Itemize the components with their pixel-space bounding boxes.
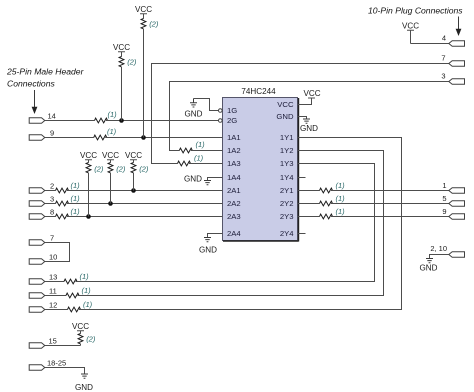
wire pin 9 to resistor (45, 137, 94, 139)
connector plug pin 9 (442, 207, 464, 219)
wire IC GND pin to ground (298, 117, 307, 120)
wire resistor to pin 1A2 (191, 150, 223, 152)
VCC symbol for pull-up on wire 15 (72, 322, 89, 334)
svg-text:VCC: VCC (402, 22, 419, 31)
resistor (1) in series with pin 2 (56, 181, 81, 193)
wire pull-up to wire 9 (143, 29, 145, 138)
resistor (2) pull-up on wire 9 (141, 19, 159, 29)
pin GND label (276, 112, 294, 121)
wire resistor to IC pin (row 3) (67, 203, 223, 205)
svg-text:74HC244: 74HC244 (241, 87, 276, 96)
junction of pull-up and wire 9 (141, 135, 146, 140)
pin 2A4 label (227, 229, 241, 238)
connector header pin 2 (29, 182, 54, 194)
svg-text:3: 3 (50, 195, 54, 204)
pin 2Y4 label (280, 229, 294, 238)
wire resistor to pin 1A1 (105, 137, 222, 139)
resistor (2) pull-up on wire 8 (86, 163, 104, 174)
wire pin 1A4 to ground (208, 178, 223, 181)
svg-text:8: 8 (50, 208, 54, 217)
pin 2Y2 label (280, 199, 294, 208)
VCC symbol for pull-up on wire 14 (113, 43, 130, 57)
svg-text:1Y2: 1Y2 (280, 146, 294, 155)
svg-text:GND: GND (276, 112, 294, 121)
resistor (1) in series with 2Y2 (320, 194, 346, 206)
ground bracket wire to pin 1G (194, 99, 219, 111)
connector plug pin 7 (441, 54, 464, 67)
connector header pin 3 (29, 195, 54, 207)
VCC symbol for pull-up on wire 2 (125, 151, 142, 163)
pin 1Y4 stub wire (298, 177, 306, 179)
connector header pin 10 (29, 253, 57, 265)
wire resistor to pin 2G (106, 120, 218, 122)
wire resistor to IC pin (row 2) (67, 190, 223, 192)
svg-text:VCC: VCC (102, 151, 119, 160)
svg-text:2A2: 2A2 (227, 199, 241, 208)
svg-text:(1): (1) (107, 127, 117, 136)
svg-text:4: 4 (442, 34, 446, 43)
svg-text:7: 7 (50, 234, 54, 243)
svg-text:2Y1: 2Y1 (280, 186, 294, 195)
pin 2Y1 label (280, 186, 294, 195)
svg-text:VCC: VCC (72, 322, 89, 331)
svg-text:1A2: 1A2 (227, 146, 241, 155)
resistor (1) in series with pin 1A3 (178, 154, 204, 166)
resistor (1) in series with pin 9 (94, 127, 117, 140)
svg-text:GND: GND (420, 264, 438, 273)
wire resistor 2Y2 to plug (331, 203, 449, 205)
wire pin 12 to IC output (79, 138, 402, 310)
svg-text:2A3: 2A3 (227, 212, 241, 221)
svg-text:1Y3: 1Y3 (280, 159, 294, 168)
ground symbol at pin 1G (185, 99, 203, 119)
svg-text:1A3: 1A3 (227, 159, 241, 168)
resistor (1) in series with pin 1A2 (179, 140, 205, 153)
svg-text:25-Pin Male Header: 25-Pin Male Header (6, 67, 85, 77)
svg-text:GND: GND (300, 124, 318, 133)
svg-text:(2): (2) (139, 165, 149, 174)
svg-text:(1): (1) (71, 181, 81, 190)
svg-text:(2): (2) (149, 20, 159, 29)
ground symbol at IC GND pin (300, 119, 318, 133)
resistor (2) pull-up on wire 14 (119, 57, 137, 67)
svg-text:1: 1 (442, 181, 446, 190)
svg-text:2, 10: 2, 10 (430, 244, 447, 253)
wire VCC to plug pin 4 (411, 43, 449, 45)
pin 1Y1 label (280, 133, 294, 142)
inverter bubble on pin 2G (219, 119, 223, 123)
pin 2Y3 label (280, 212, 294, 221)
VCC symbol for pull-up on wire 9 (135, 5, 152, 19)
wire IC VCC pin to VCC symbol (298, 98, 312, 105)
wire pin 13 to resistor (45, 281, 64, 283)
ground symbol at plug pins 2,10 (420, 259, 438, 273)
pin 2A3 label (227, 212, 241, 221)
svg-text:9: 9 (50, 129, 54, 138)
connector plug pins 2 and 10 (430, 244, 464, 257)
pin 2A2 label (227, 199, 241, 208)
svg-text:5: 5 (442, 194, 446, 203)
arrow pointing to 25-pin header connectors (32, 90, 38, 114)
svg-text:(2): (2) (116, 165, 126, 174)
svg-text:13: 13 (49, 273, 57, 282)
VCC symbol at plug pin 4 (402, 22, 419, 44)
wire pull-up to wire 8 (88, 173, 90, 217)
connector plug pin 4 (442, 34, 465, 47)
wire right plug pin 7 to resistor of 1A3 (152, 64, 449, 164)
wire right plug pin 3 to resistor of 1A2 (170, 82, 449, 151)
connector header pin 13 (29, 273, 57, 285)
svg-text:2G: 2G (227, 116, 237, 125)
resistor (2) pull-up on wire 15 (78, 334, 96, 344)
svg-text:VCC: VCC (80, 151, 97, 160)
svg-text:10: 10 (49, 253, 57, 262)
inverter bubble on pin 1G (219, 109, 223, 113)
connector header pin 9 (29, 129, 54, 141)
wire pull-up to wire 2 (133, 173, 135, 191)
svg-text:12: 12 (49, 301, 57, 310)
25-pin header annotation label (6, 67, 85, 89)
VCC symbol for pull-up on wire 3 (102, 151, 119, 163)
wire resistor 2Y3 to plug (331, 216, 449, 218)
connector header pin 8 (29, 208, 54, 220)
pin 1Y3 label (280, 159, 294, 168)
svg-text:(1): (1) (108, 110, 118, 119)
wire pull-up to wire 14 (121, 67, 123, 121)
junction of pull-up and wire 8 (86, 214, 91, 219)
svg-text:GND: GND (75, 383, 93, 392)
svg-text:(1): (1) (83, 300, 93, 309)
svg-text:2: 2 (50, 182, 54, 191)
svg-text:VCC: VCC (277, 100, 294, 109)
svg-text:1Y4: 1Y4 (280, 173, 294, 182)
pin 2G label (227, 116, 237, 125)
svg-text:Connections: Connections (7, 79, 55, 89)
svg-text:(1): (1) (336, 207, 346, 216)
wire pin 15 to pull-up (45, 345, 81, 347)
resistor (2) pull-up on wire 3 (108, 163, 126, 174)
pin 1Y4 label (280, 173, 294, 182)
svg-text:7: 7 (441, 54, 445, 63)
resistor (1) in series with 2Y1 (320, 181, 346, 193)
wire pin 2 to resistor (45, 190, 56, 192)
svg-text:9: 9 (442, 207, 446, 216)
wire pin 12 to resistor (45, 309, 68, 311)
svg-text:GND: GND (185, 110, 203, 119)
svg-text:2Y4: 2Y4 (280, 229, 294, 238)
svg-text:1Y1: 1Y1 (280, 133, 294, 142)
wire pin 13 to IC output (76, 164, 375, 282)
connector plug pin 1 (442, 181, 464, 193)
pin 1A4 label (227, 173, 241, 182)
svg-text:2A4: 2A4 (227, 229, 241, 238)
svg-text:(1): (1) (194, 154, 204, 163)
svg-text:(1): (1) (336, 194, 346, 203)
svg-text:VCC: VCC (113, 43, 130, 52)
IC U1 74HC244 body (223, 87, 299, 242)
wire pin 2A4 to ground (208, 234, 223, 238)
svg-text:2Y3: 2Y3 (280, 212, 294, 221)
svg-text:(2): (2) (94, 165, 104, 174)
svg-text:(1): (1) (336, 181, 346, 190)
wire joining pins 7 and 10 (45, 243, 70, 262)
connector header pin 11 (29, 287, 57, 299)
resistor (1) in series with pin 3 (56, 194, 81, 206)
pin 1G label (227, 106, 237, 115)
resistor (1) in series with 2Y3 (320, 207, 346, 219)
svg-text:(1): (1) (82, 286, 92, 295)
svg-text:1A4: 1A4 (227, 173, 241, 182)
svg-text:(1): (1) (196, 140, 206, 149)
wire resistor 2Y1 to plug (331, 190, 449, 192)
wire plug pins 2,10 to ground (430, 255, 449, 259)
svg-text:VCC: VCC (125, 151, 142, 160)
svg-text:18-25: 18-25 (47, 359, 66, 368)
ground symbol for pins 18-25 (75, 374, 93, 392)
svg-text:15: 15 (49, 337, 57, 346)
svg-text:VCC: VCC (303, 89, 320, 98)
svg-text:GND: GND (184, 175, 202, 184)
pin 1A2 label (227, 146, 241, 155)
wire pin 14 to resistor (45, 120, 95, 122)
svg-text:2A1: 2A1 (227, 186, 241, 195)
resistor (1) in series with pin 13 (64, 272, 89, 284)
connector header pin 12 (29, 301, 57, 313)
wire pull-up to wire 15 (80, 344, 82, 346)
resistor (1) in series with pin 8 (56, 207, 81, 219)
pin 2Y4 stub wire (298, 233, 306, 235)
svg-text:VCC: VCC (135, 5, 152, 14)
junction of pull-up and wire 14 (119, 118, 124, 123)
svg-text:(1): (1) (80, 272, 90, 281)
resistor (1) in series with pin 12 (68, 300, 93, 312)
connector header pin 7 (29, 234, 54, 246)
connector header pin 14 (29, 112, 56, 124)
connector plug pin 5 (442, 194, 464, 206)
svg-text:2Y2: 2Y2 (280, 199, 294, 208)
connector header pins 18-25 (29, 359, 66, 371)
pin 1Y2 label (280, 146, 294, 155)
wire resistor to pin 1A3 (189, 163, 223, 165)
svg-text:11: 11 (49, 287, 57, 296)
resistor (1) in series with pin 11 (66, 286, 91, 298)
10-pin plug annotation label (368, 6, 463, 16)
wire pin 11 to IC output (78, 151, 384, 296)
svg-text:(2): (2) (127, 58, 137, 67)
wire pin 8 to resistor (45, 216, 56, 218)
wire pin 11 to resistor (45, 295, 66, 297)
svg-text:14: 14 (48, 112, 56, 121)
pin VCC label (277, 100, 294, 109)
wire pin 3 to resistor (45, 203, 56, 205)
pin 2A1 label (227, 186, 241, 195)
svg-text:10-Pin Plug Connections: 10-Pin Plug Connections (368, 6, 463, 16)
connector plug pin 3 (441, 72, 464, 85)
pin 1A3 label (227, 159, 241, 168)
wire 2Y3 to resistor (298, 216, 320, 218)
wire pins 18-25 to ground (45, 368, 85, 375)
svg-text:3: 3 (441, 72, 445, 81)
svg-text:GND: GND (199, 246, 217, 255)
svg-text:1G: 1G (227, 106, 237, 115)
VCC symbol for pull-up on wire 8 (80, 151, 97, 163)
wire resistor to IC pin (row 8) (67, 216, 223, 218)
junction of pull-up and wire 2 (131, 188, 136, 193)
arrow pointing to 10-pin plug connector 4 (456, 17, 462, 37)
resistor (2) pull-up on wire 2 (131, 163, 149, 174)
svg-text:(1): (1) (71, 194, 81, 203)
resistor (1) in series with pin 14 (95, 110, 118, 123)
ground symbol at pin 2A4 (199, 238, 217, 255)
wire 2Y2 to resistor (298, 203, 320, 205)
wire 2Y1 to resistor (298, 190, 320, 192)
junction of pull-up and wire 3 (108, 201, 113, 206)
svg-text:(1): (1) (71, 207, 81, 216)
pin 1A1 label (227, 133, 241, 142)
ground symbol at pin 1A4 (184, 175, 211, 185)
svg-text:1A1: 1A1 (227, 133, 241, 142)
svg-text:(2): (2) (86, 335, 96, 344)
wire pull-up to wire 3 (110, 173, 112, 204)
VCC symbol at IC VCC pin (303, 89, 320, 98)
connector header pin 15 (29, 337, 57, 349)
